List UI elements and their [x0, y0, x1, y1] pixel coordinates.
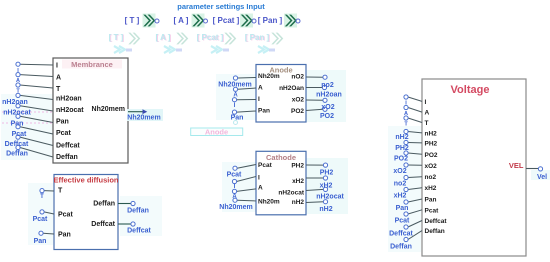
- node [Pcat] from-tag: [213, 14, 256, 28]
- svg-text:Pcat: Pcat: [258, 162, 273, 169]
- svg-text:xO2: xO2: [393, 168, 406, 175]
- svg-text:PO2: PO2: [291, 108, 304, 115]
- svg-text:nH2oan: nH2oan: [2, 99, 28, 106]
- svg-text:PH2: PH2: [425, 140, 438, 147]
- svg-text:nH2oan: nH2oan: [316, 91, 342, 98]
- halo washes: [1, 94, 52, 160]
- voltage input wires: [408, 97, 422, 240]
- node ghost [Pcat] tag: [197, 33, 237, 45]
- svg-text:Pan: Pan: [58, 232, 71, 239]
- svg-text:PH2: PH2: [395, 145, 409, 152]
- svg-text:nO2: nO2: [291, 74, 304, 81]
- wire Nh20mem output of Membrance: [127, 109, 163, 122]
- cathode output wires: [306, 165, 324, 203]
- svg-text:Pan: Pan: [396, 205, 409, 212]
- node ghost [Pan] tag: [245, 33, 284, 45]
- input port circles for Effective diffusion: [39, 189, 44, 236]
- svg-text:PO2: PO2: [320, 113, 334, 120]
- svg-text:no2: no2: [425, 174, 437, 181]
- node [Pan] from-tag: [258, 14, 300, 28]
- svg-text:Pan: Pan: [258, 108, 270, 115]
- svg-text:A: A: [258, 84, 263, 91]
- svg-text:Deffcat: Deffcat: [91, 221, 115, 228]
- effective diffusion input wires: [43, 191, 54, 234]
- svg-text:Pan: Pan: [11, 121, 24, 128]
- svg-text:PH2: PH2: [291, 163, 304, 170]
- node tiny labels I A T: [16, 68, 20, 95]
- node tiny I A T voltage labels: [404, 101, 408, 128]
- svg-text:parameter settings Input: parameter settings Input: [177, 2, 265, 11]
- block Voltage body: [422, 79, 526, 256]
- svg-text:A: A: [425, 110, 430, 117]
- block Membrance body: [53, 58, 128, 163]
- svg-text:A: A: [232, 194, 237, 200]
- svg-text:A: A: [16, 78, 20, 84]
- svg-text:PO2: PO2: [425, 152, 438, 159]
- svg-text:A: A: [404, 111, 408, 117]
- svg-text:nH2Oan: nH2Oan: [279, 85, 304, 92]
- output port circles for Anode: [322, 75, 327, 111]
- svg-text:Pcat: Pcat: [425, 207, 440, 214]
- svg-text:Deffan: Deffan: [127, 208, 149, 215]
- svg-text:[ Pan ]: [ Pan ]: [245, 33, 270, 42]
- svg-text:nH2: nH2: [319, 206, 332, 213]
- svg-text:Deffan: Deffan: [425, 228, 445, 235]
- ghost magenta dashes: [2, 112, 52, 123]
- halo behind cathode ports: [306, 158, 348, 214]
- svg-text:[ T ]: [ T ]: [125, 16, 140, 25]
- svg-text:Pcat: Pcat: [227, 172, 242, 179]
- cathode input wires: [237, 165, 257, 201]
- svg-text:Pcat: Pcat: [56, 130, 71, 137]
- svg-text:nH2ocat: nH2ocat: [3, 110, 31, 117]
- anode output wires: [306, 77, 323, 111]
- node ghost Anode box: [191, 121, 243, 137]
- svg-text:VEL: VEL: [509, 161, 524, 170]
- svg-text:Deffcat: Deffcat: [5, 141, 29, 148]
- svg-text:Pcat: Pcat: [12, 131, 27, 138]
- svg-text:Pan: Pan: [231, 115, 244, 122]
- svg-text:[ T ]: [ T ]: [109, 33, 124, 42]
- svg-text:Pcat: Pcat: [395, 218, 410, 225]
- svg-text:Nh20mem: Nh20mem: [218, 82, 251, 89]
- svg-text:Cathode: Cathode: [266, 153, 296, 162]
- svg-text:A: A: [56, 75, 61, 82]
- svg-text:no2: no2: [394, 181, 407, 188]
- input port circles for Cathode: [232, 166, 237, 202]
- svg-text:Anode: Anode: [205, 128, 228, 137]
- svg-text:Deffcat: Deffcat: [425, 218, 448, 225]
- svg-text:xH2: xH2: [394, 193, 407, 200]
- svg-text:Effective diffusion: Effective diffusion: [53, 176, 118, 185]
- svg-text:Membrance: Membrance: [71, 60, 113, 69]
- svg-text:Pcat: Pcat: [58, 212, 73, 219]
- anode input wires: [237, 78, 256, 113]
- svg-text:[ Pcat ]: [ Pcat ]: [197, 33, 224, 42]
- input port circles for Membrance: [16, 62, 20, 149]
- node [A] from-tag: [174, 14, 208, 28]
- svg-text:Deffcat: Deffcat: [389, 231, 413, 238]
- svg-text:Deffan: Deffan: [56, 154, 78, 161]
- svg-text:T: T: [40, 194, 44, 200]
- svg-text:Pan: Pan: [425, 197, 437, 204]
- svg-text:[ A ]: [ A ]: [156, 33, 171, 42]
- svg-text:xO2: xO2: [321, 104, 334, 111]
- input port circles for Anode: [232, 76, 237, 114]
- svg-text:PH2: PH2: [320, 170, 334, 177]
- svg-text:no2: no2: [321, 82, 334, 89]
- svg-text:Nh20m: Nh20m: [258, 73, 280, 80]
- output port circles for Cathode: [323, 163, 327, 204]
- wire Deffcat output: [118, 222, 152, 235]
- svg-text:Deffan: Deffan: [93, 201, 115, 208]
- svg-text:nH2: nH2: [425, 130, 438, 137]
- svg-text:nH2ocat: nH2ocat: [316, 194, 344, 201]
- svg-text:xH2: xH2: [292, 178, 304, 185]
- svg-text:PO2: PO2: [394, 156, 408, 163]
- svg-text:I: I: [258, 96, 260, 103]
- svg-text:I: I: [56, 63, 58, 70]
- svg-text:[ Pcat ]: [ Pcat ]: [213, 16, 240, 25]
- svg-text:Nh20m: Nh20m: [258, 199, 280, 206]
- svg-text:xH2: xH2: [425, 185, 437, 192]
- node ghost smudge row: [114, 46, 275, 53]
- wire VEL output: [526, 167, 547, 181]
- svg-text:Deffcat: Deffcat: [127, 228, 151, 235]
- svg-text:xH2: xH2: [320, 183, 333, 190]
- block Effective diffusion body: [53, 175, 118, 250]
- svg-text:nH2ocat: nH2ocat: [56, 107, 84, 114]
- svg-text:Nh20mem: Nh20mem: [92, 106, 125, 113]
- node ghost [A] tag: [156, 33, 189, 45]
- svg-text:Nh20mem: Nh20mem: [219, 204, 252, 211]
- svg-text:Voltage: Voltage: [451, 84, 490, 96]
- svg-text:T: T: [58, 188, 63, 195]
- svg-text:xO2: xO2: [292, 97, 305, 104]
- svg-text:nH2oan: nH2oan: [56, 96, 82, 103]
- svg-text:Deffcat: Deffcat: [56, 143, 80, 150]
- block Anode body: [256, 65, 306, 123]
- svg-text:A: A: [258, 185, 263, 192]
- wire Deffan output: [118, 201, 149, 214]
- node [T] from-tag: [125, 14, 159, 28]
- svg-text:nH2: nH2: [395, 134, 408, 141]
- svg-text:nH2ocat: nH2ocat: [278, 189, 304, 196]
- block Cathode body: [256, 151, 306, 215]
- svg-text:A: A: [233, 93, 238, 99]
- input port circles for Voltage: [404, 95, 408, 242]
- svg-text:I: I: [425, 99, 427, 106]
- svg-text:Pan: Pan: [34, 238, 47, 245]
- wire I input: [20, 64, 53, 157]
- svg-text:T: T: [425, 120, 429, 127]
- svg-text:T: T: [56, 86, 61, 93]
- svg-text:Nh20mem: Nh20mem: [127, 115, 160, 122]
- svg-text:[ A ]: [ A ]: [174, 16, 189, 25]
- svg-text:xO2: xO2: [425, 163, 438, 170]
- halo behind anode ports: [306, 70, 346, 122]
- node ghost [T] tag: [109, 33, 141, 45]
- svg-text:Vel: Vel: [537, 174, 547, 181]
- svg-text:Pcat: Pcat: [33, 216, 48, 223]
- svg-text:[ Pan ]: [ Pan ]: [258, 16, 283, 25]
- svg-text:Deffan: Deffan: [6, 151, 28, 158]
- svg-text:Deffan: Deffan: [390, 244, 412, 251]
- svg-text:Pan: Pan: [56, 119, 69, 126]
- svg-text:I: I: [258, 175, 260, 182]
- svg-text:nH2: nH2: [292, 199, 305, 206]
